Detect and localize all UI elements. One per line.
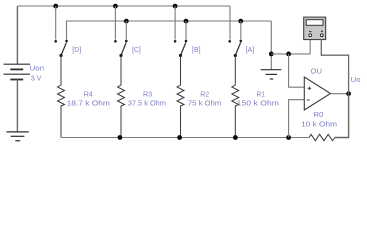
- node bottom rail junction R3: [118, 135, 123, 140]
- wire second rail to switch B right contact: [185, 21, 187, 40]
- switch A: [228, 40, 242, 57]
- svg-text:150 k Ohm: 150 k Ohm: [237, 99, 279, 108]
- svg-text:[D]: [D]: [72, 45, 81, 54]
- svg-text:R4: R4: [84, 90, 93, 99]
- switch C: [114, 40, 128, 57]
- svg-text:37.5 k Ohm: 37.5 k Ohm: [128, 99, 166, 108]
- wire top rail to switch C left contact: [114, 6, 116, 40]
- wire top rail to switch D left contact: [55, 6, 57, 40]
- node output Uo: [346, 91, 351, 96]
- resistor R1: [232, 56, 239, 138]
- svg-text:R2: R2: [200, 90, 209, 99]
- wire multimeter plus to output node: [321, 40, 348, 94]
- node top rail junction at switch D: [53, 4, 58, 9]
- node noninverting branch junction: [286, 52, 291, 57]
- node second rail junction at switch C: [124, 19, 129, 24]
- wire battery negative to ground: [16, 80, 18, 132]
- resistor R3: [118, 56, 125, 138]
- svg-text:18.7 k Ohm: 18.7 k Ohm: [67, 99, 110, 108]
- svg-text:R0: R0: [313, 110, 323, 119]
- wire ground junction to multimeter minus: [271, 40, 310, 54]
- resistor R0 feedback: [309, 134, 335, 140]
- svg-text:[A]: [A]: [246, 45, 255, 54]
- svg-text:R1: R1: [257, 90, 265, 99]
- node ground junction at second rail drop: [269, 52, 274, 57]
- ground at op-amp noninverting network: [261, 70, 282, 79]
- wire second rail down to ground junction: [270, 21, 272, 70]
- resistor R2: [177, 56, 184, 138]
- node summing junction to inverting input: [286, 135, 291, 140]
- switch D: [54, 40, 67, 57]
- svg-text:[B]: [B]: [192, 45, 201, 54]
- svg-text:3 V: 3 V: [31, 74, 42, 83]
- node top rail junction at switch C: [113, 4, 118, 9]
- wire output down to feedback resistor: [335, 94, 349, 138]
- wire battery positive to top rail: [16, 6, 18, 64]
- svg-text:[C]: [C]: [132, 45, 141, 54]
- svg-text:R3: R3: [143, 90, 152, 99]
- battery Uon: [4, 64, 31, 79]
- switch B: [174, 40, 188, 57]
- wire junction down to noninverting input: [289, 54, 305, 87]
- wire summing junction up to inverting input: [289, 100, 305, 138]
- svg-text:Uon: Uon: [30, 64, 45, 73]
- svg-text:75 k Ohm: 75 k Ohm: [188, 99, 221, 108]
- multimeter instrument: [304, 17, 326, 39]
- wire top rail to switch B left contact: [174, 6, 176, 40]
- wire op-amp output to node Uo: [331, 93, 349, 95]
- node bottom rail junction R2: [177, 135, 182, 140]
- wire bottom summing rail: [61, 137, 309, 139]
- node top rail junction at switch B: [173, 4, 178, 9]
- wire second rail to switch A right contact: [240, 21, 242, 40]
- resistor R4: [58, 56, 65, 138]
- wire second rail to switch C right contact: [125, 21, 127, 40]
- node second rail junction at switch B: [184, 19, 189, 24]
- node second rail junction at switch A: [238, 19, 243, 24]
- ground below battery: [6, 132, 28, 141]
- svg-text:10 k Ohm: 10 k Ohm: [301, 119, 337, 128]
- svg-text:Uo: Uo: [351, 75, 361, 84]
- op-amp OU: [304, 77, 330, 110]
- node bottom rail junction R1: [233, 135, 238, 140]
- wire top rail to switch A left contact: [229, 6, 231, 40]
- wire top rail: [17, 5, 230, 7]
- wire second rail: [67, 21, 272, 40]
- svg-text:OU: OU: [311, 66, 323, 75]
